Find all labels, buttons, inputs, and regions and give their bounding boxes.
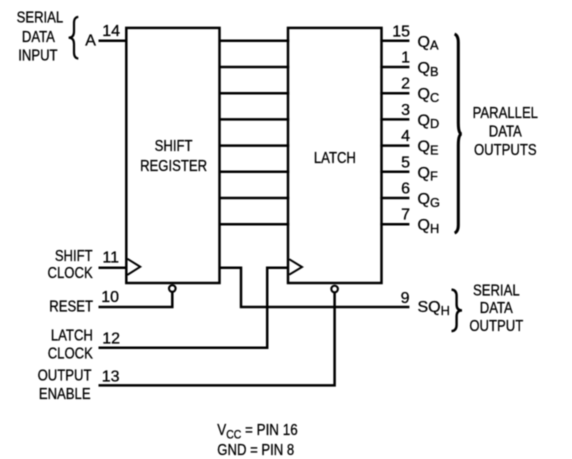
svg-text:ENABLE: ENABLE	[39, 386, 91, 403]
svg-text:QD: QD	[418, 112, 440, 131]
clock triangle latch	[289, 259, 302, 275]
svg-text:GND = PIN 8: GND = PIN 8	[217, 442, 294, 459]
wire shift register to latch bit F	[219, 171, 290, 174]
wire serial input A (pin 14)	[99, 40, 128, 43]
svg-text:2: 2	[401, 76, 410, 93]
brace parallel data outputs	[455, 34, 462, 233]
svg-text:INPUT: INPUT	[18, 47, 57, 64]
wire SQH from shift register to pin 9	[219, 268, 410, 307]
brace serial data output	[452, 290, 463, 332]
wire output QA (pin 15)	[380, 40, 409, 43]
svg-text:SERIAL: SERIAL	[473, 283, 520, 300]
wire shift register to latch bit B	[219, 66, 290, 69]
svg-text:SHIFT: SHIFT	[55, 248, 93, 265]
svg-text:15: 15	[392, 23, 410, 40]
svg-text:11: 11	[102, 250, 119, 267]
wire output QB (pin 1)	[380, 66, 409, 69]
svg-text:7: 7	[401, 207, 410, 224]
svg-text:DATA: DATA	[489, 123, 522, 140]
wire output enable input (pin 13)	[99, 293, 335, 386]
wire output QE (pin 4)	[380, 144, 409, 147]
clock triangle shift register	[127, 259, 140, 275]
svg-text:OUTPUT: OUTPUT	[469, 318, 523, 335]
wire latch clock input (pin 12)	[99, 268, 289, 348]
svg-text:SERIAL: SERIAL	[17, 9, 64, 26]
svg-text:QC: QC	[418, 86, 440, 105]
svg-text:10: 10	[101, 289, 119, 306]
brace left of A input	[69, 17, 79, 59]
wire output QH (pin 7)	[380, 223, 409, 226]
wire shift register to latch bit C	[219, 92, 290, 95]
wire shift register to latch bit A	[219, 40, 290, 43]
svg-text:QH: QH	[418, 217, 440, 236]
wire output QF (pin 5)	[380, 171, 409, 174]
svg-text:5: 5	[401, 154, 410, 171]
svg-text:PARALLEL: PARALLEL	[473, 105, 538, 122]
svg-text:1: 1	[401, 50, 410, 67]
wire shift register to latch bit H	[219, 223, 290, 226]
svg-text:14: 14	[102, 23, 120, 40]
wire shift register to latch bit D	[219, 118, 290, 121]
shift register block U1	[126, 28, 219, 283]
svg-text:SHIFT: SHIFT	[155, 138, 193, 155]
svg-text:9: 9	[401, 290, 410, 307]
svg-text:OUTPUTS: OUTPUTS	[474, 142, 537, 159]
wire shift register to latch bit E	[219, 144, 290, 147]
svg-text:13: 13	[102, 369, 120, 386]
wire shift clock input (pin 11)	[99, 266, 128, 269]
svg-text:3: 3	[401, 102, 410, 119]
wire shift register to latch bit G	[219, 197, 290, 200]
svg-text:CLOCK: CLOCK	[48, 346, 93, 363]
svg-text:REGISTER: REGISTER	[140, 158, 207, 175]
svg-text:VCC = PIN 16: VCC = PIN 16	[217, 422, 297, 442]
wire output QG (pin 6)	[380, 197, 409, 200]
output enable bubble on latch	[331, 286, 338, 293]
svg-text:LATCH: LATCH	[51, 327, 93, 344]
svg-text:QB: QB	[418, 60, 439, 79]
svg-text:A: A	[85, 32, 96, 49]
svg-text:QA: QA	[418, 34, 439, 53]
svg-text:12: 12	[102, 331, 120, 348]
svg-text:SQH: SQH	[418, 299, 450, 318]
wire reset input (pin 10)	[99, 292, 173, 307]
svg-text:6: 6	[401, 181, 410, 198]
svg-text:OUTPUT: OUTPUT	[38, 368, 92, 385]
svg-text:DATA: DATA	[480, 300, 513, 317]
svg-text:4: 4	[401, 128, 410, 145]
svg-text:QG: QG	[418, 191, 440, 210]
wire output QD (pin 3)	[380, 118, 409, 121]
latch block U2	[288, 28, 382, 283]
svg-text:DATA: DATA	[22, 29, 55, 46]
svg-text:CLOCK: CLOCK	[48, 265, 93, 282]
reset bubble on shift register	[169, 285, 176, 292]
svg-text:LATCH: LATCH	[314, 150, 356, 167]
svg-text:QF: QF	[418, 165, 438, 184]
wire output QC (pin 2)	[380, 92, 409, 95]
svg-text:QE: QE	[418, 139, 439, 158]
svg-text:RESET: RESET	[49, 299, 93, 316]
